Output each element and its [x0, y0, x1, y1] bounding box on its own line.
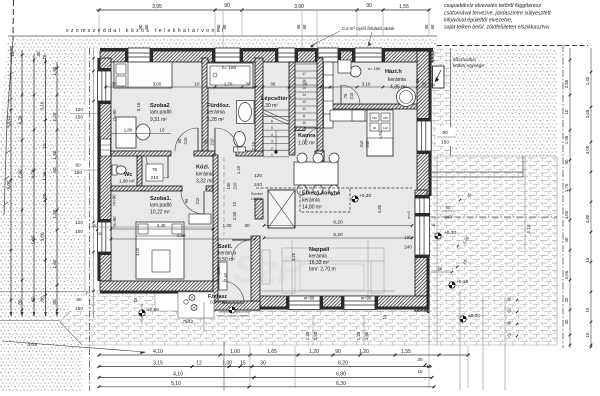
wall east of Kozl/Szoba1 — [213, 155, 218, 281]
svg-text:2,30 m²: 2,30 m² — [261, 103, 278, 109]
Szelf west wall — [213, 236, 218, 310]
window S2 Nappali — [344, 296, 375, 310]
svg-text:m=90: m=90 — [112, 216, 117, 228]
svg-text:240: 240 — [404, 245, 412, 250]
svg-text:30: 30 — [415, 78, 420, 83]
svg-text:210: 210 — [183, 137, 188, 145]
svg-text:75: 75 — [152, 167, 158, 172]
svg-text:n= 150: n= 150 — [368, 66, 381, 71]
svg-text:1,70: 1,70 — [224, 82, 233, 87]
level entry ±0,00 — [141, 304, 143, 324]
svg-text:6,30: 6,30 — [336, 381, 346, 387]
kitchen counter east — [367, 110, 393, 156]
svg-text:1,50: 1,50 — [378, 130, 383, 139]
svg-text:30: 30 — [564, 319, 569, 324]
svg-text:1,40: 1,40 — [585, 76, 590, 85]
svg-text:4: 4 — [271, 133, 273, 137]
svg-text:9,00: 9,00 — [6, 180, 11, 189]
interior dim chain — [104, 86, 433, 88]
flower pots — [189, 295, 195, 301]
svg-text:6,80: 6,80 — [336, 372, 346, 378]
svg-text:3,20: 3,20 — [291, 252, 296, 261]
svg-text:15: 15 — [382, 314, 387, 319]
entry door Szelf — [222, 302, 244, 304]
wall north of Szoba1 — [111, 186, 182, 191]
svg-text:1,60: 1,60 — [52, 150, 57, 159]
kitchen counter top — [330, 110, 367, 121]
wall Furdo/Lepcso (thick) — [255, 58, 263, 155]
svg-text:5: 5 — [271, 126, 273, 130]
curb lines bottom-left — [0, 320, 60, 322]
svg-text:+0,30: +0,30 — [444, 230, 456, 236]
wall south of Hazt.h — [330, 104, 417, 109]
svg-text:2,10: 2,10 — [526, 224, 531, 233]
Szelf south wall — [213, 301, 260, 310]
washer Hazt.h — [338, 60, 351, 73]
svg-text:4,20: 4,20 — [18, 115, 23, 124]
door Szoba2 — [197, 128, 199, 151]
svg-text:3,10: 3,10 — [40, 101, 45, 110]
svg-text:140: 140 — [383, 126, 388, 130]
svg-text:90: 90 — [296, 24, 301, 29]
svg-text:120: 120 — [75, 220, 83, 226]
svg-text:60: 60 — [31, 296, 36, 302]
svg-text:210: 210 — [349, 92, 354, 100]
nappali floor line — [258, 290, 395, 292]
svg-text:15: 15 — [92, 224, 96, 228]
svg-text:5,28 m²: 5,28 m² — [207, 117, 224, 123]
svg-text:30: 30 — [36, 51, 41, 57]
svg-text:2,40: 2,40 — [223, 272, 228, 281]
svg-text:90: 90 — [224, 3, 230, 9]
svg-text:4,80: 4,80 — [377, 204, 382, 213]
svg-text:30: 30 — [564, 237, 569, 242]
svg-text:15: 15 — [133, 297, 138, 302]
F.terasz slab — [178, 292, 214, 318]
heat pump unit — [433, 66, 445, 88]
svg-text:30: 30 — [98, 232, 102, 236]
svg-text:3,40: 3,40 — [157, 223, 166, 228]
brick walkway east — [432, 48, 451, 156]
svg-text:kerám a: kerám a — [218, 251, 236, 257]
Kamra north wall stub — [295, 127, 305, 131]
stair break line — [264, 110, 288, 121]
svg-text:1,50: 1,50 — [313, 331, 318, 340]
svg-text:1,60: 1,60 — [52, 259, 57, 268]
door Szelf->kitchen — [232, 239, 251, 241]
svg-text:60: 60 — [302, 24, 307, 29]
svg-text:60: 60 — [430, 24, 435, 29]
svg-text:210: 210 — [210, 138, 215, 146]
svg-text:1,95: 1,95 — [564, 135, 569, 144]
svg-text:310: 310 — [359, 140, 364, 148]
svg-text:3,00: 3,00 — [135, 247, 140, 256]
svg-text:4,80: 4,80 — [585, 214, 590, 223]
svg-text:90: 90 — [177, 138, 182, 143]
svg-text:2,10: 2,10 — [251, 141, 256, 150]
svg-text:16: 16 — [431, 83, 435, 87]
bathtub — [207, 63, 253, 88]
west wall — [100, 58, 111, 281]
window N4 Hazt.h — [355, 48, 382, 62]
door WC — [167, 156, 169, 178]
door Kamra — [305, 127, 321, 129]
svg-text:3,50 m²: 3,50 m² — [218, 257, 235, 263]
svg-text:60: 60 — [438, 267, 443, 272]
svg-text:10: 10 — [195, 82, 200, 87]
window E2 Nappali — [415, 216, 430, 255]
svg-text:1,60: 1,60 — [31, 235, 36, 244]
horizontal wall under Szoba2+Furdo — [111, 151, 171, 156]
svg-text:15: 15 — [585, 257, 590, 262]
svg-text:lam.padló: lam.padló — [150, 110, 172, 116]
svg-text:6,20: 6,20 — [338, 361, 348, 367]
svg-text:kifolyóval épülettől elvezetve: kifolyóval épülettől elvezetve, — [444, 18, 513, 24]
svg-text:06: 06 — [271, 82, 276, 87]
svg-text:7,90: 7,90 — [18, 169, 23, 178]
svg-text:16: 16 — [431, 223, 435, 227]
svg-text:240: 240 — [444, 215, 452, 220]
svg-text:3,00: 3,00 — [153, 82, 162, 87]
svg-text:30: 30 — [246, 82, 251, 87]
svg-text:6,20: 6,20 — [333, 220, 343, 226]
svg-text:1,40: 1,40 — [236, 165, 241, 174]
svg-text:m=0: m=0 — [407, 211, 411, 219]
svg-text:15: 15 — [302, 86, 306, 90]
door Szoba1 — [203, 191, 205, 214]
svg-text:1,50: 1,50 — [52, 209, 57, 218]
svg-text:Étkező-konyha: Étkező-konyha — [302, 189, 341, 197]
door dim WC 75/210 — [146, 164, 163, 181]
door E lower — [415, 198, 430, 216]
svg-text:150: 150 — [441, 140, 449, 146]
svg-text:80: 80 — [75, 163, 81, 169]
svg-text:Wc: Wc — [124, 172, 132, 178]
svg-text:kerámia: kerámia — [302, 198, 320, 204]
top dim line — [96, 9, 429, 11]
svg-text:1,00: 1,00 — [42, 193, 47, 202]
svg-text:11: 11 — [302, 114, 306, 118]
svg-text:±0,00: ±0,00 — [147, 307, 159, 313]
svg-text:90: 90 — [335, 349, 341, 355]
svg-text:Fürdősz.: Fürdősz. — [207, 103, 231, 109]
svg-text:3: 3 — [271, 140, 273, 144]
svg-text:2: 2 — [271, 146, 273, 150]
stair east wall — [317, 58, 323, 155]
svg-text:30: 30 — [260, 361, 266, 367]
west wall niche — [101, 139, 111, 156]
stairs left flight — [263, 64, 317, 157]
washbasin Furdo — [237, 101, 255, 124]
vertical dash-dot boundary lines — [89, 48, 91, 391]
toilet Furdo — [234, 132, 246, 147]
svg-text:lam.padló: lam.padló — [150, 203, 172, 209]
svg-text:1,80: 1,80 — [124, 128, 133, 133]
svg-text:06: 06 — [303, 82, 308, 87]
dim 3,40 — [111, 228, 213, 230]
paved brick area south+east — [60, 156, 557, 345]
svg-text:75: 75 — [204, 139, 209, 144]
svg-text:9,31 m²: 9,31 m² — [150, 117, 167, 123]
svg-text:10: 10 — [160, 128, 165, 133]
svg-text:5,10: 5,10 — [171, 381, 181, 387]
svg-text:3,10: 3,10 — [6, 115, 11, 124]
svg-text:150: 150 — [75, 306, 83, 312]
svg-text:10: 10 — [585, 332, 590, 337]
svg-text:15: 15 — [417, 369, 423, 374]
window S1 Nappali — [289, 296, 320, 310]
dim 120/150 left — [70, 219, 88, 234]
svg-text:Lépcsőtér ¹.: Lépcsőtér ¹. — [261, 95, 293, 102]
dim 6,20 x2 — [264, 225, 412, 227]
dim 120/150 window W1 — [70, 105, 88, 120]
north wall — [100, 51, 433, 62]
window W1 Szoba2 — [97, 71, 111, 101]
top extension verticals — [98, 11, 100, 36]
svg-text:1,00: 1,00 — [216, 266, 221, 275]
svg-text:4,10: 4,10 — [173, 372, 183, 378]
label 3,04 — [2, 341, 145, 352]
svg-text:14: 14 — [302, 93, 306, 97]
grass stipple bottom-left — [0, 291, 88, 391]
svg-text:80: 80 — [40, 296, 45, 302]
svg-text:2,55: 2,55 — [564, 79, 569, 88]
svg-text:130: 130 — [226, 182, 231, 190]
svg-text:12: 12 — [196, 361, 202, 367]
svg-text:1,50: 1,50 — [364, 331, 369, 340]
svg-text:10: 10 — [232, 201, 237, 206]
svg-text:4,10: 4,10 — [153, 349, 163, 355]
svg-text:0,4 m² nyíló felületű ablak: 0,4 m² nyíló felületű ablak — [342, 26, 395, 31]
svg-text:6,20: 6,20 — [333, 232, 343, 238]
svg-text:30: 30 — [417, 357, 423, 362]
svg-text:m=90: m=90 — [112, 194, 117, 206]
cabinet Hazt.h west — [324, 62, 334, 128]
svg-text:bmr: 2,70 m: bmr: 2,70 m — [309, 267, 336, 273]
svg-text:150: 150 — [75, 115, 83, 121]
level door step — [229, 307, 235, 313]
closet Szelf — [219, 262, 227, 290]
svg-text:80: 80 — [446, 205, 451, 210]
window N3 stair — [278, 48, 295, 62]
svg-text:4,35 m²: 4,35 m² — [390, 85, 407, 91]
svg-text:4,80: 4,80 — [177, 233, 186, 238]
svg-text:0,94 m²: 0,94 m² — [210, 300, 226, 305]
svg-text:Sonkei: Sonkei — [251, 192, 263, 196]
west wall dim line — [93, 48, 95, 318]
svg-text:n= 180: n= 180 — [222, 65, 237, 70]
east wall lower — [415, 190, 427, 311]
svg-text:Házt.h: Házt.h — [385, 69, 402, 75]
left plot boundary — [12, 0, 15, 40]
svg-text:12: 12 — [302, 107, 306, 111]
svg-text:m=90: m=90 — [112, 109, 117, 121]
svg-text:1,30: 1,30 — [42, 171, 47, 180]
grass stipple area right — [451, 48, 558, 156]
bottom extension verticals — [223, 342, 225, 391]
dim 80/150 left WC — [69, 161, 87, 176]
level east +0,15 — [449, 282, 455, 288]
svg-text:kerámia: kerámia — [196, 172, 214, 178]
window N2 Furdo — [215, 48, 240, 62]
svg-text:90: 90 — [184, 198, 189, 203]
svg-text:10: 10 — [42, 143, 47, 149]
toilet WC — [112, 165, 117, 175]
bed Szoba2 — [114, 62, 172, 88]
window N3b — [318, 48, 338, 62]
svg-text:1,20: 1,20 — [309, 349, 319, 355]
wardrobe Szoba1 — [189, 214, 211, 224]
stair mid wall — [289, 62, 295, 155]
svg-text:80: 80 — [76, 297, 82, 303]
dim 4,80 — [111, 238, 255, 240]
chimney block — [268, 190, 295, 228]
svg-text:UNI78: UNI78 — [251, 197, 262, 201]
svg-text:hőszivattyú: hőszivattyú — [453, 57, 476, 62]
svg-text:10: 10 — [302, 121, 306, 125]
bottom row 2 — [99, 366, 432, 368]
svg-text:17: 17 — [302, 72, 306, 76]
svg-text:30: 30 — [422, 82, 427, 87]
svg-text:1,20: 1,20 — [52, 112, 57, 121]
svg-text:90: 90 — [424, 24, 429, 29]
svg-text:30: 30 — [244, 223, 250, 228]
svg-text:6: 6 — [271, 120, 273, 124]
svg-text:10,22 m²: 10,22 m² — [150, 210, 170, 216]
WC east wall — [137, 156, 142, 186]
svg-text:kerámia: kerámia — [207, 110, 225, 116]
svg-text:3,15: 3,15 — [153, 361, 163, 367]
left dim verticals — [10, 46, 12, 316]
svg-text:10: 10 — [564, 109, 569, 114]
bottom row 4 — [99, 386, 434, 388]
svg-text:16,33 m²: 16,33 m² — [309, 260, 329, 266]
svg-text:16: 16 — [42, 54, 47, 60]
svg-text:4,00: 4,00 — [564, 210, 569, 219]
dim 1,80/10 szoba2 — [111, 133, 171, 135]
svg-text:3,10: 3,10 — [136, 102, 141, 111]
grass stipple band top + strip left — [0, 37, 437, 291]
desk+chair Szoba2 — [116, 117, 136, 148]
svg-text:210: 210 — [151, 175, 159, 180]
svg-text:3,00: 3,00 — [585, 145, 590, 154]
boundary line above band — [8, 35, 437, 37]
svg-text:90: 90 — [366, 3, 372, 9]
level terrace ±0,00 — [460, 316, 466, 322]
window E1 Hazt.h — [417, 121, 431, 151]
shaft box with X at stair — [315, 151, 324, 161]
Szelf east wall — [251, 236, 260, 310]
svg-text:150: 150 — [75, 229, 83, 235]
dining table — [294, 162, 338, 185]
svg-text:Szoba2: Szoba2 — [150, 103, 170, 109]
svg-text:csapadékvíz elvezetés tetőről: csapadékvíz elvezetés tetőről függőeresz — [444, 3, 542, 9]
svg-text:3,32 m²: 3,32 m² — [196, 179, 213, 185]
svg-text:150: 150 — [74, 170, 82, 176]
sofa Nappali (light) — [282, 248, 384, 261]
svg-text:kerámia: kerámia — [388, 77, 406, 83]
south wall Nappali — [255, 296, 427, 307]
south wall Szoba1 — [100, 281, 218, 291]
svg-text:2,05: 2,05 — [564, 270, 569, 279]
svg-text:80: 80 — [18, 299, 23, 305]
label Etkezo-konyha — [300, 188, 350, 212]
door Furdo — [214, 128, 216, 151]
kitchen beam dashed line — [256, 187, 300, 189]
svg-text:120: 120 — [75, 107, 83, 113]
wall pier kitchen west — [255, 199, 263, 219]
svg-text:2,50: 2,50 — [232, 211, 237, 220]
svg-text:1,20: 1,20 — [356, 331, 361, 340]
svg-text:±0,00: ±0,00 — [468, 313, 480, 319]
svg-text:Szoba1.: Szoba1. — [150, 196, 172, 202]
svg-text:8,20: 8,20 — [31, 169, 36, 178]
svg-text:1,55: 1,55 — [399, 4, 409, 10]
svg-text:75: 75 — [343, 93, 348, 98]
svg-text:+0,30: +0,30 — [359, 193, 371, 199]
wall Szoba2/Furdo — [202, 58, 208, 155]
svg-text:180: 180 — [372, 116, 377, 120]
svg-text:15: 15 — [585, 307, 590, 312]
svg-text:m=90: m=90 — [304, 296, 315, 301]
svg-text:90: 90 — [373, 126, 377, 130]
svg-text:3,05: 3,05 — [585, 109, 590, 118]
house interior floor — [111, 58, 417, 301]
right dim verticals — [569, 48, 571, 348]
svg-text:szomszéddal közös telekhatárvo: szomszéddal közös telekhatárvonal — [66, 28, 225, 34]
svg-text:15: 15 — [240, 361, 246, 367]
svg-text:1,50: 1,50 — [52, 66, 57, 75]
dim 90/150 right — [436, 127, 455, 146]
stipple right edge line — [84, 48, 86, 291]
east wall upper — [417, 51, 429, 196]
svg-text:1,20: 1,20 — [305, 331, 310, 340]
svg-text:Nappali: Nappali — [309, 247, 330, 253]
window N1 Szoba2 — [128, 48, 150, 62]
bottom row 3 — [99, 377, 432, 379]
svg-text:75/12: 75/12 — [183, 319, 194, 324]
svg-text:1,90 m²: 1,90 m² — [119, 179, 135, 184]
svg-text:240: 240 — [365, 140, 370, 148]
svg-text:15: 15 — [10, 51, 15, 57]
svg-text:30: 30 — [564, 297, 569, 302]
svg-text:180: 180 — [383, 116, 388, 120]
svg-text:1,55: 1,55 — [401, 349, 411, 355]
svg-text:210: 210 — [195, 197, 200, 205]
svg-text:1,00: 1,00 — [230, 349, 240, 355]
level kitchen +0,30 — [352, 196, 358, 202]
svg-text:3,10: 3,10 — [362, 82, 371, 87]
svg-text:Kamra: Kamra — [298, 133, 316, 139]
svg-text:30: 30 — [112, 82, 117, 87]
svg-text:14,80 m²: 14,80 m² — [302, 205, 322, 211]
svg-text:1,02 m²: 1,02 m² — [298, 141, 315, 147]
dim 80/150 left lower — [70, 296, 88, 311]
svg-text:m=90: m=90 — [361, 296, 372, 301]
bed Szoba1 — [136, 222, 184, 279]
boundary dashed line right — [437, 45, 588, 47]
svg-text:saját telken belül, zöldfelüle: saját telken belül, zöldfelületen elszik… — [444, 25, 549, 31]
svg-text:kerámia: kerámia — [309, 254, 327, 260]
svg-text:1,65: 1,65 — [267, 349, 277, 355]
svg-text:Széll.: Széll. — [218, 244, 233, 250]
entry steps — [219, 311, 250, 313]
svg-text:Közl.: Közl. — [196, 165, 210, 171]
svg-text:3,04: 3,04 — [27, 342, 37, 349]
svg-text:kültéri egysége: kültéri egysége — [453, 63, 484, 68]
svg-text:210: 210 — [233, 182, 238, 190]
bottom row 1 — [99, 354, 470, 356]
